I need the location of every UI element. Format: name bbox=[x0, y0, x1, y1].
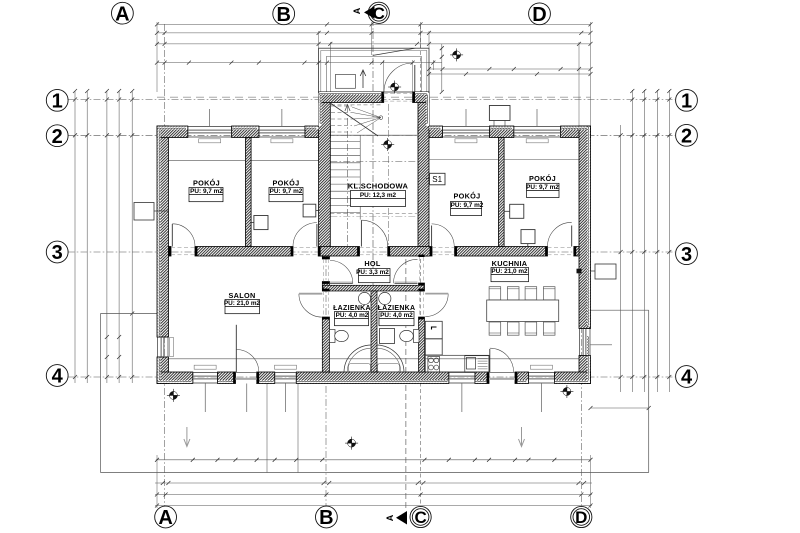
svg-text:A: A bbox=[385, 514, 395, 521]
svg-text:A: A bbox=[352, 7, 362, 14]
svg-text:B: B bbox=[319, 507, 333, 529]
svg-text:KUCHNIA: KUCHNIA bbox=[492, 259, 528, 268]
svg-text:4: 4 bbox=[681, 367, 693, 389]
svg-text:A: A bbox=[158, 507, 172, 529]
svg-text:POKÓJ: POKÓJ bbox=[193, 179, 220, 188]
svg-text:POKÓJ: POKÓJ bbox=[453, 192, 480, 201]
svg-text:A: A bbox=[115, 3, 129, 25]
svg-text:D: D bbox=[575, 508, 587, 527]
svg-text:1: 1 bbox=[681, 91, 692, 113]
svg-text:POKÓJ: POKÓJ bbox=[272, 179, 299, 188]
svg-text:2: 2 bbox=[52, 126, 63, 148]
svg-text:PU: 9,7 m2: PU: 9,7 m2 bbox=[190, 188, 223, 195]
svg-text:B: B bbox=[276, 4, 290, 26]
svg-text:ŁAZIENKA: ŁAZIENKA bbox=[378, 305, 416, 312]
svg-text:3: 3 bbox=[52, 242, 63, 264]
svg-text:2: 2 bbox=[681, 126, 692, 148]
svg-text:C: C bbox=[373, 4, 385, 23]
svg-text:S1: S1 bbox=[432, 175, 442, 184]
svg-text:PU: 9,7 m2: PU: 9,7 m2 bbox=[270, 188, 303, 195]
svg-text:POKÓJ: POKÓJ bbox=[529, 174, 556, 183]
svg-text:PU: 3,3 m2: PU: 3,3 m2 bbox=[356, 269, 389, 276]
svg-text:1: 1 bbox=[52, 91, 63, 113]
svg-text:3: 3 bbox=[681, 244, 692, 266]
svg-text:PU: 4,0 m2: PU: 4,0 m2 bbox=[380, 312, 413, 319]
svg-text:PU: 12,3 m2: PU: 12,3 m2 bbox=[360, 192, 397, 199]
svg-text:PU: 21,0 m2: PU: 21,0 m2 bbox=[224, 300, 261, 307]
svg-text:PU: 21,0 m2: PU: 21,0 m2 bbox=[491, 268, 528, 275]
svg-text:HOL: HOL bbox=[364, 259, 381, 268]
svg-text:KL.SCHODOWA: KL.SCHODOWA bbox=[348, 182, 409, 191]
svg-text:4: 4 bbox=[52, 366, 64, 388]
svg-text:SALON: SALON bbox=[228, 291, 255, 300]
svg-text:ŁAZIENKA: ŁAZIENKA bbox=[333, 305, 371, 312]
svg-text:PU: 9,7 m2: PU: 9,7 m2 bbox=[451, 202, 484, 209]
svg-text:D: D bbox=[532, 4, 546, 26]
svg-text:PU: 9,7 m2: PU: 9,7 m2 bbox=[526, 184, 559, 191]
svg-text:PU: 4,0 m2: PU: 4,0 m2 bbox=[336, 312, 369, 319]
svg-text:C: C bbox=[414, 508, 426, 527]
